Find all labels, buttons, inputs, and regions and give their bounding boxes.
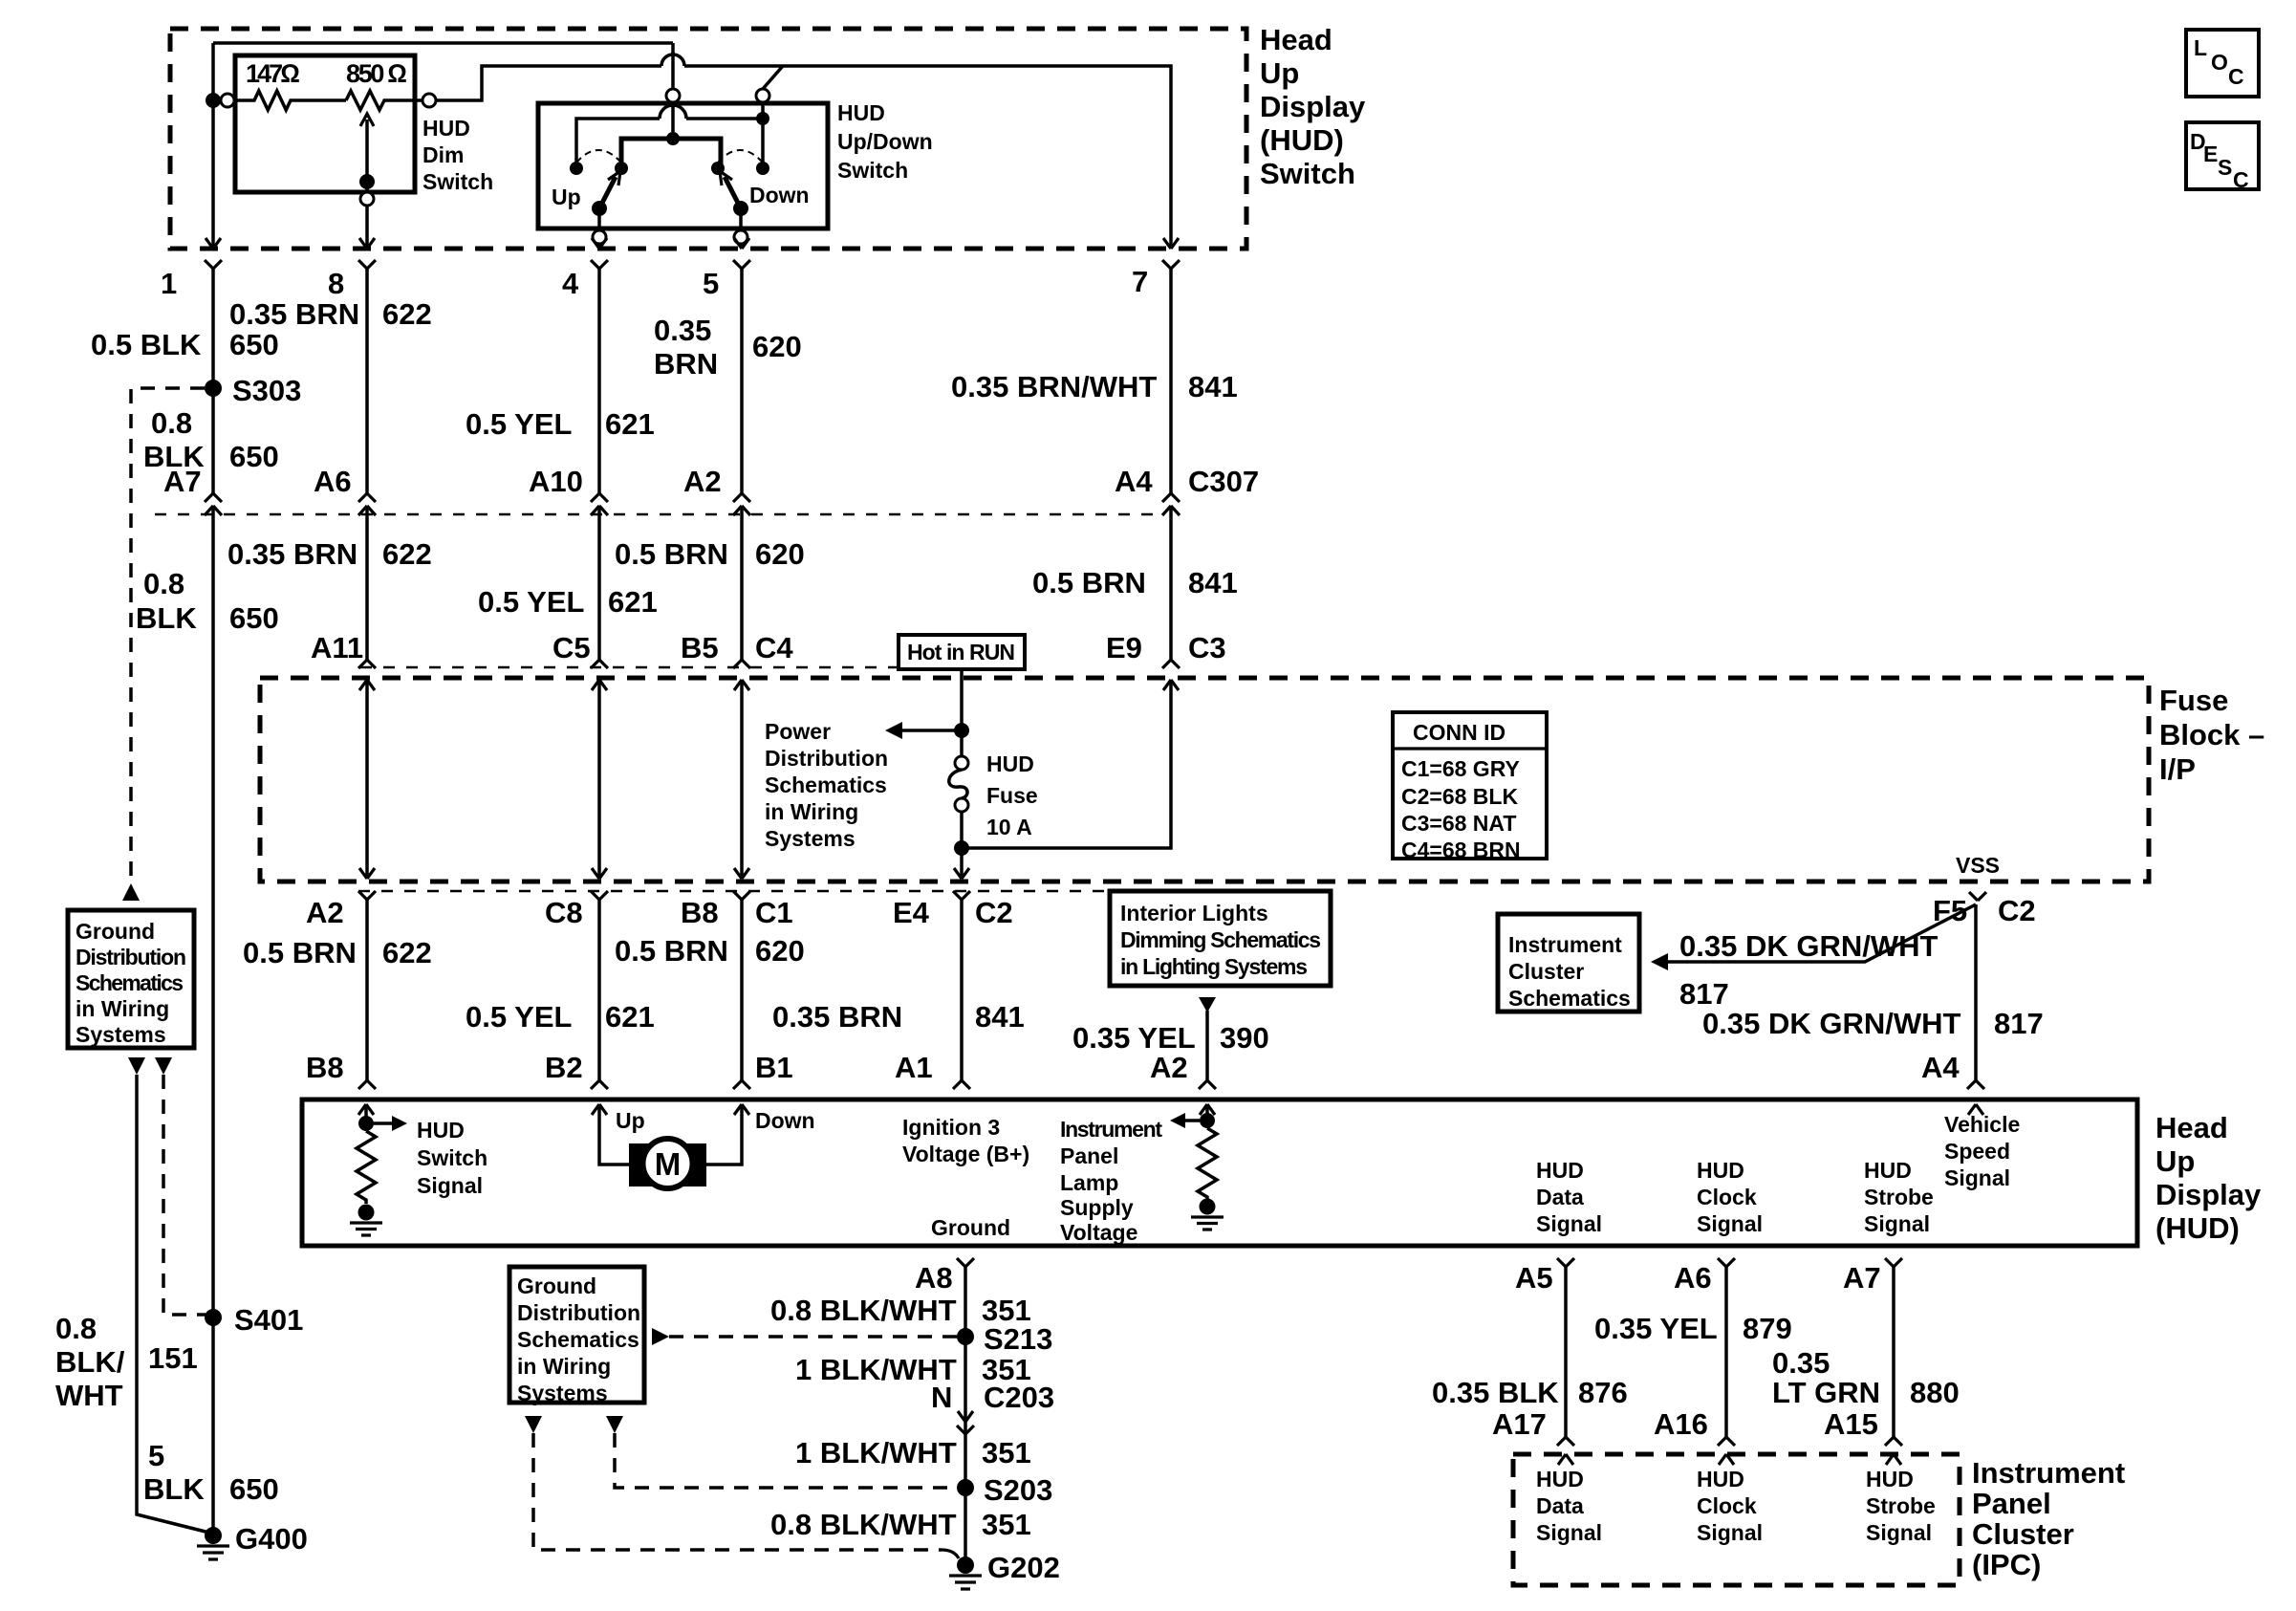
svg-text:Instrument: Instrument — [1508, 932, 1622, 957]
svg-text:Strobe: Strobe — [1866, 1493, 1936, 1518]
svg-text:HUD: HUD — [1536, 1158, 1584, 1183]
svg-text:Dimming Schematics: Dimming Schematics — [1120, 927, 1321, 952]
svg-text:A17: A17 — [1492, 1407, 1547, 1441]
svg-text:S203: S203 — [984, 1473, 1052, 1507]
Head Up Display box — [302, 1099, 2137, 1246]
connector label B8 hud — [306, 1051, 344, 1084]
wire hot in run feed — [960, 669, 964, 730]
svg-text:620: 620 — [755, 537, 805, 571]
svg-text:E4: E4 — [893, 896, 930, 929]
splice S213 — [957, 1322, 1052, 1356]
svg-text:Schematics: Schematics — [517, 1327, 639, 1352]
label Up — [552, 185, 581, 209]
connector C203 inline — [957, 1411, 974, 1434]
hud clock signal wire A6 — [1718, 1258, 1735, 1465]
svg-text:Schematics: Schematics — [76, 970, 184, 995]
motor down feed — [706, 1104, 815, 1165]
label Fuse Block I/P — [2159, 684, 2264, 786]
svg-text:Cluster: Cluster — [1508, 959, 1584, 984]
svg-text:A4: A4 — [1921, 1051, 1960, 1084]
svg-text:Switch: Switch — [422, 169, 493, 194]
svg-text:B5: B5 — [681, 631, 719, 664]
lamp supply input arrow — [1200, 1104, 1215, 1128]
svg-text:1 BLK/WHT: 1 BLK/WHT — [795, 1436, 957, 1469]
interior lights output arrow — [1199, 997, 1216, 1089]
connector label B1 — [755, 1051, 793, 1084]
svg-text:Supply: Supply — [1060, 1195, 1134, 1220]
contact dots up switch — [570, 162, 628, 175]
connector label A2 — [683, 465, 722, 498]
label HUD Dim Switch — [422, 116, 493, 194]
svg-text:351: 351 — [982, 1436, 1031, 1469]
svg-text:E9: E9 — [1106, 631, 1142, 664]
svg-text:Cluster: Cluster — [1972, 1517, 2074, 1551]
svg-text:Distribution: Distribution — [765, 746, 888, 771]
svg-text:B2: B2 — [545, 1051, 583, 1084]
wire label 0.8 BLK/WHT 151 — [55, 1312, 198, 1412]
svg-text:A2: A2 — [306, 896, 344, 929]
middle box arrow to S213 — [652, 1328, 958, 1345]
svg-text:Ground: Ground — [931, 1215, 1010, 1240]
svg-text:E: E — [2203, 142, 2218, 166]
Instrument Panel Cluster dashed box — [1513, 1454, 1960, 1585]
svg-text:Vehicle: Vehicle — [1944, 1112, 2020, 1137]
wire vss 817 vertical — [1967, 904, 1984, 1089]
pin 4 connector — [591, 238, 608, 493]
label HUD Strobe Signal in box — [1864, 1158, 1934, 1236]
svg-text:Switch: Switch — [837, 158, 908, 183]
svg-text:0.8 BLK/WHT: 0.8 BLK/WHT — [770, 1294, 957, 1327]
svg-text:Instrument: Instrument — [1060, 1117, 1162, 1142]
svg-text:Signal: Signal — [1866, 1520, 1932, 1545]
wire 620 through fuse block — [740, 680, 744, 879]
connector label A4 vss — [1921, 1051, 1960, 1084]
label VSS — [1956, 853, 2000, 878]
svg-text:879: 879 — [1743, 1312, 1792, 1345]
vss exit connector — [1969, 892, 1986, 901]
LOC box — [2186, 30, 2259, 97]
svg-text:A7: A7 — [1843, 1261, 1881, 1295]
svg-text:Clock: Clock — [1697, 1185, 1757, 1209]
svg-text:Distribution: Distribution — [76, 945, 186, 969]
wire label 0.5 YEL 621 pin4 — [466, 407, 655, 441]
svg-text:A6: A6 — [314, 465, 352, 498]
svg-text:620: 620 — [755, 934, 805, 968]
connector row C307 dashed line — [155, 513, 1160, 515]
connector label A7 strobe — [1843, 1261, 1881, 1295]
svg-text:0.35 BRN: 0.35 BRN — [772, 1000, 902, 1034]
svg-text:Head: Head — [1260, 23, 1332, 56]
label Instrument Panel Lamp Supply Voltage — [1060, 1117, 1162, 1245]
wire label 0.35 LT GRN 880 — [1772, 1346, 1960, 1409]
HUD dim switch box — [235, 55, 415, 192]
svg-text:S303: S303 — [232, 374, 301, 407]
svg-text:Systems: Systems — [765, 826, 856, 851]
svg-text:Display: Display — [1260, 90, 1366, 123]
svg-text:A10: A10 — [529, 465, 583, 498]
svg-text:C4=68 BRN: C4=68 BRN — [1401, 838, 1521, 862]
svg-text:0.35 DK GRN/WHT: 0.35 DK GRN/WHT — [1679, 929, 1938, 963]
wire label 0.5 BLK 650 pin1 — [91, 328, 279, 361]
svg-text:G202: G202 — [987, 1551, 1060, 1584]
svg-text:A6: A6 — [1674, 1261, 1712, 1295]
svg-text:Panel: Panel — [1060, 1143, 1118, 1168]
vss input arrow — [1968, 1104, 1983, 1115]
svg-text:841: 841 — [1188, 370, 1238, 403]
svg-text:A4: A4 — [1115, 465, 1153, 498]
svg-text:0.35 DK GRN/WHT: 0.35 DK GRN/WHT — [1702, 1007, 1960, 1040]
svg-text:650: 650 — [229, 440, 279, 473]
svg-text:Down: Down — [749, 183, 810, 207]
connector label A5 — [1515, 1261, 1553, 1295]
ground distribution reference dashed left — [122, 388, 205, 901]
wire 622 through fuse block — [365, 680, 369, 879]
svg-text:0.5 YEL: 0.5 YEL — [478, 585, 584, 619]
svg-text:C4: C4 — [755, 631, 793, 664]
wire label 5 BLK 650 — [143, 1439, 279, 1506]
wire 620 row3 to HUD — [733, 900, 750, 1089]
svg-text:Dim: Dim — [422, 142, 464, 167]
svg-text:650: 650 — [229, 601, 279, 635]
down switch wiper — [720, 171, 748, 230]
svg-text:7: 7 — [1132, 265, 1148, 298]
wire label 1 BLK/WHT 351 c — [795, 1436, 1031, 1469]
Instrument Cluster Schematics box — [1498, 914, 1639, 1012]
svg-text:Fuse: Fuse — [2159, 684, 2228, 717]
svg-text:HUD: HUD — [1866, 1467, 1914, 1491]
svg-text:Power: Power — [765, 719, 831, 744]
svg-text:C2=68 BLK: C2=68 BLK — [1401, 784, 1518, 809]
svg-text:Ignition 3: Ignition 3 — [902, 1115, 1000, 1140]
svg-text:Hot in RUN: Hot in RUN — [907, 640, 1015, 664]
svg-text:621: 621 — [605, 1000, 655, 1034]
svg-text:B8: B8 — [681, 896, 719, 929]
svg-text:Up: Up — [1260, 56, 1299, 90]
svg-text:C: C — [2233, 167, 2249, 192]
svg-text:A8: A8 — [915, 1261, 953, 1295]
svg-text:A1: A1 — [895, 1051, 933, 1084]
svg-text:C: C — [2228, 64, 2244, 89]
splice S203 — [957, 1473, 1052, 1507]
ground ref dashed to G202 — [533, 1433, 959, 1558]
svg-text:841: 841 — [975, 1000, 1025, 1034]
connector label E4 — [893, 896, 930, 929]
connector label A8 — [915, 1261, 953, 1295]
pin number 7 — [1132, 265, 1148, 298]
down switch throw arc — [718, 150, 763, 163]
CONN ID table — [1393, 712, 1547, 862]
Interior Lights box — [1110, 891, 1331, 986]
svg-text:0.35 YEL: 0.35 YEL — [1594, 1312, 1718, 1345]
connector label A6 clock — [1674, 1261, 1712, 1295]
pin 5 connector — [733, 238, 750, 493]
pin 7 connector — [1162, 238, 1180, 493]
svg-text:A15: A15 — [1824, 1407, 1878, 1441]
svg-text:0.8: 0.8 — [143, 567, 184, 600]
svg-text:S401: S401 — [234, 1303, 303, 1337]
svg-text:C203: C203 — [984, 1381, 1054, 1414]
resistor 850 ohm — [346, 59, 422, 110]
pin number 8 — [328, 267, 344, 300]
hud switch signal input arrow — [358, 1104, 374, 1131]
connector label A11 — [311, 631, 363, 664]
label HUD Data Signal in box — [1536, 1158, 1602, 1236]
svg-text:BLK/: BLK/ — [55, 1345, 125, 1379]
svg-text:0.35 BRN: 0.35 BRN — [229, 297, 359, 331]
svg-text:0.35: 0.35 — [1772, 1346, 1830, 1380]
pin number 4 — [562, 267, 579, 300]
wire label 0.5 YEL 621 row3 — [466, 1000, 655, 1034]
svg-text:Display: Display — [2155, 1178, 2262, 1211]
svg-text:817: 817 — [1994, 1007, 2044, 1040]
svg-text:Data: Data — [1536, 1493, 1584, 1518]
connector label A15 — [1824, 1407, 1878, 1441]
svg-text:0.35 BRN/WHT: 0.35 BRN/WHT — [951, 370, 1157, 403]
label HUD Clock Signal ipc — [1697, 1467, 1763, 1545]
Ground Distribution Schematics box left — [68, 910, 194, 1048]
svg-text:N: N — [931, 1381, 952, 1414]
fuse HUD 10A — [949, 730, 1038, 879]
wire label 0.35 BLK 876 — [1432, 1376, 1628, 1409]
svg-text:850 Ω: 850 Ω — [346, 59, 407, 88]
HUD up/down switch box — [538, 103, 828, 229]
label Vehicle Speed Signal — [1944, 1112, 2020, 1190]
svg-text:Instrument: Instrument — [1972, 1456, 2125, 1490]
wire label 0.8 BLK/WHT 351 d — [770, 1508, 1031, 1541]
svg-text:C1: C1 — [755, 896, 793, 929]
svg-text:LT GRN: LT GRN — [1772, 1376, 1880, 1409]
svg-text:Strobe: Strobe — [1864, 1185, 1934, 1209]
wire label 0.8 BLK 650 row2 — [136, 567, 279, 635]
resistor hud switch signal — [357, 1131, 376, 1204]
connector label C3 — [1188, 631, 1226, 664]
wire label 0.5 YEL 621 row2 — [478, 585, 658, 619]
svg-text:5: 5 — [703, 267, 719, 300]
svg-text:in Lighting Systems: in Lighting Systems — [1120, 954, 1308, 979]
svg-text:Voltage (B+): Voltage (B+) — [902, 1142, 1029, 1166]
node fuse output junction — [954, 840, 969, 856]
svg-text:390: 390 — [1220, 1021, 1269, 1055]
wire ign3 row3 to HUD — [953, 900, 970, 1089]
svg-text:C3=68 NAT: C3=68 NAT — [1401, 811, 1516, 836]
ground distribution dashed to S401 — [163, 1075, 206, 1315]
wire label 0.35 DK GRN/WHT 817 branch — [1679, 929, 1938, 1011]
svg-text:A5: A5 — [1515, 1261, 1553, 1295]
connector row3 contacts — [358, 891, 970, 900]
terminal circle dim right — [422, 94, 436, 107]
svg-text:0.8: 0.8 — [55, 1312, 97, 1345]
label Head Up Display (HUD) Switch — [1260, 23, 1366, 190]
wire label 0.35 BRN/WHT 841 pin7 — [951, 370, 1238, 403]
connector label A17 — [1492, 1407, 1547, 1441]
svg-text:Switch: Switch — [1260, 157, 1355, 190]
connector label A2 lamp — [1150, 1051, 1188, 1084]
svg-text:HUD: HUD — [422, 116, 470, 141]
svg-text:351: 351 — [982, 1508, 1031, 1541]
svg-text:HUD: HUD — [986, 751, 1034, 776]
svg-text:Signal: Signal — [417, 1173, 483, 1198]
svg-text:841: 841 — [1188, 566, 1238, 599]
ground G400 — [197, 1522, 308, 1559]
DESC box — [2186, 122, 2259, 192]
svg-text:0.8 BLK/WHT: 0.8 BLK/WHT — [770, 1508, 957, 1541]
wire label 0.35 DK GRN/WHT 817 vertical — [1702, 1007, 2044, 1040]
ground wire A8 exit — [957, 1258, 974, 1559]
svg-text:620: 620 — [752, 330, 802, 363]
terminal circle up output — [593, 230, 606, 247]
connector row2 dashed line — [360, 666, 899, 668]
ground hud switch signal — [350, 1205, 382, 1236]
wire dim switch output to pin7 — [436, 54, 1171, 247]
label Instrument Panel Cluster (IPC) — [1972, 1456, 2125, 1581]
svg-text:O: O — [2211, 50, 2228, 75]
left box output arrows — [128, 1057, 172, 1075]
svg-text:HUD: HUD — [1697, 1467, 1744, 1491]
svg-text:A2: A2 — [1150, 1051, 1188, 1084]
fuse block IP dashed box — [260, 678, 2149, 882]
svg-text:Speed: Speed — [1944, 1139, 2010, 1164]
wire 620 row1-row2 — [740, 506, 744, 660]
ground lamp supply — [1191, 1199, 1224, 1230]
up/down common bus — [621, 132, 721, 168]
svg-text:876: 876 — [1578, 1376, 1628, 1409]
svg-text:0.5 YEL: 0.5 YEL — [466, 1000, 572, 1034]
wire 650 BLK S401 to G400 — [211, 1310, 215, 1534]
svg-text:Data: Data — [1536, 1185, 1584, 1209]
connector label B5 — [681, 631, 719, 664]
connector label N C203 — [931, 1381, 1054, 1414]
svg-text:Interior Lights: Interior Lights — [1120, 901, 1268, 925]
connector label A2 row3 — [306, 896, 344, 929]
svg-text:CONN ID: CONN ID — [1413, 720, 1505, 745]
svg-text:621: 621 — [608, 585, 658, 619]
splice S401 — [205, 1303, 303, 1337]
connector label C307 — [1188, 465, 1259, 498]
svg-text:C5: C5 — [552, 631, 591, 664]
motor up feed — [592, 1104, 645, 1165]
svg-text:C2: C2 — [1998, 894, 2036, 927]
wire label 0.35 YEL 879 — [1594, 1312, 1792, 1345]
resistor 147 ohm — [234, 59, 346, 110]
svg-text:B8: B8 — [306, 1051, 344, 1084]
pin 1 connector — [205, 238, 222, 493]
svg-text:8: 8 — [328, 267, 344, 300]
svg-text:650: 650 — [229, 328, 279, 361]
svg-text:Lamp: Lamp — [1060, 1170, 1118, 1195]
svg-text:0.5 BRN: 0.5 BRN — [615, 537, 728, 571]
svg-text:Up: Up — [616, 1108, 645, 1133]
label Head Up Display (HUD) — [2155, 1111, 2262, 1245]
node hud switch signal — [358, 1116, 407, 1131]
svg-text:Up: Up — [2155, 1144, 2195, 1178]
label HUD Clock Signal in box — [1697, 1158, 1763, 1236]
node power distribution tap — [885, 722, 969, 739]
wire 622 row3 to HUD — [358, 900, 376, 1089]
fuse block entry arrows — [359, 680, 1179, 690]
label HUD Data Signal ipc — [1536, 1467, 1602, 1545]
wire label 0.35 BRN 650 pin8 — [229, 297, 432, 331]
connector label F5 — [1933, 894, 1967, 927]
svg-text:G400: G400 — [235, 1522, 308, 1556]
wire vss 817 branch — [1651, 904, 1976, 970]
label Power Distribution Schematics in Wiring Systems — [765, 719, 888, 851]
svg-text:Signal: Signal — [1536, 1211, 1602, 1236]
wire label 0.35 BRN 841 row3 — [772, 1000, 1025, 1034]
svg-text:in Wiring: in Wiring — [76, 996, 169, 1021]
label HUD Up/Down Switch — [837, 100, 933, 183]
svg-text:0.8: 0.8 — [151, 406, 192, 440]
svg-text:622: 622 — [382, 297, 432, 331]
svg-text:0.35 BRN: 0.35 BRN — [227, 537, 357, 571]
svg-text:Signal: Signal — [1697, 1211, 1763, 1236]
splice S303 — [205, 374, 301, 407]
svg-text:622: 622 — [382, 936, 432, 969]
label HUD Switch Signal — [417, 1118, 487, 1198]
ground ref dashed to S203 — [615, 1433, 958, 1488]
fuse block exit arrows — [359, 868, 969, 879]
svg-text:0.35: 0.35 — [654, 314, 711, 347]
label Down — [749, 183, 810, 207]
connector label A7 — [163, 465, 202, 498]
connector label C4 — [755, 631, 793, 664]
svg-text:0.5 BRN: 0.5 BRN — [1032, 566, 1146, 599]
wire 621 row3 to HUD — [591, 900, 608, 1089]
svg-text:5: 5 — [148, 1439, 164, 1472]
svg-text:622: 622 — [382, 537, 432, 571]
contact dots down switch — [711, 162, 769, 175]
wire label 0.8 BLK/WHT 351 a — [770, 1294, 1031, 1327]
wire label 0.5 BRN 620 row3 — [615, 934, 805, 968]
connector label B2 — [545, 1051, 583, 1084]
pin number 5 — [703, 267, 719, 300]
svg-text:0.35 BLK: 0.35 BLK — [1432, 1376, 1559, 1409]
svg-text:C2: C2 — [975, 896, 1013, 929]
connector label C1 — [755, 896, 793, 929]
svg-text:0.5 BLK: 0.5 BLK — [91, 328, 202, 361]
connector label A16 — [1654, 1407, 1708, 1441]
svg-text:Distribution: Distribution — [517, 1300, 640, 1325]
svg-text:Clock: Clock — [1697, 1493, 1757, 1518]
svg-text:Up: Up — [552, 185, 581, 209]
svg-text:880: 880 — [1910, 1376, 1960, 1409]
svg-text:Ground: Ground — [517, 1274, 596, 1298]
svg-text:151: 151 — [148, 1341, 198, 1375]
svg-text:(IPC): (IPC) — [1972, 1548, 2041, 1581]
svg-text:0.5 BRN: 0.5 BRN — [615, 934, 728, 968]
svg-text:WHT: WHT — [55, 1379, 123, 1412]
wire label 0.35 YEL 390 — [1072, 1021, 1269, 1055]
pin 8 connector — [358, 238, 376, 493]
svg-text:Schematics: Schematics — [765, 773, 887, 797]
wire label 1 BLK/WHT 351 b — [795, 1353, 1031, 1386]
svg-text:HUD: HUD — [1864, 1158, 1912, 1183]
svg-text:Ground: Ground — [76, 919, 155, 944]
svg-text:147Ω: 147Ω — [246, 59, 300, 88]
terminal circle dim left — [221, 94, 234, 107]
svg-text:S: S — [2218, 155, 2232, 180]
hud data signal wire A5 — [1557, 1258, 1574, 1465]
svg-text:C3: C3 — [1188, 631, 1226, 664]
connector label A1 — [895, 1051, 933, 1084]
wire circle2 branch — [576, 102, 769, 164]
connector row3 dashed line — [358, 890, 1110, 892]
svg-text:VSS: VSS — [1956, 853, 2000, 878]
connector label C2 row3 — [975, 896, 1013, 929]
svg-text:B1: B1 — [755, 1051, 793, 1084]
connector label C2 vss — [1998, 894, 2036, 927]
dim wiper arrow — [359, 114, 375, 192]
svg-text:650: 650 — [229, 1472, 279, 1506]
